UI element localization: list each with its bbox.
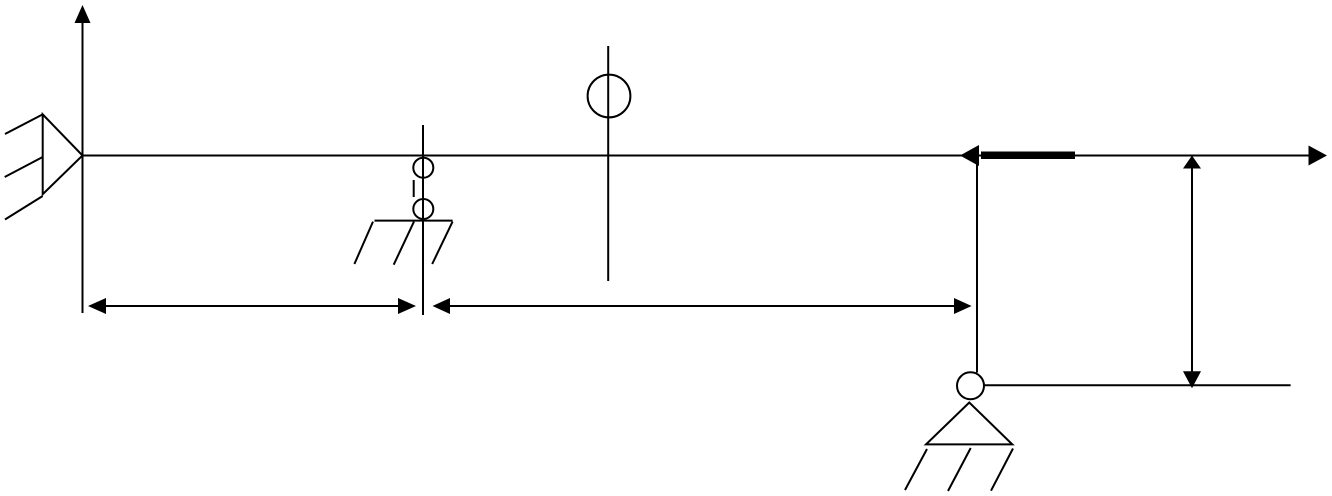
- left vertical axis line: [82, 20, 84, 313]
- up arrowhead on axis: [75, 5, 91, 23]
- middle support link bar: [413, 180, 415, 197]
- fixed support hatch 2: [5, 157, 43, 177]
- middle support lower roller circle: [413, 199, 433, 219]
- fixed support triangle (left wall): [43, 114, 83, 194]
- fixed support hatch 3: [5, 196, 43, 220]
- middle ground hatch 2: [394, 222, 414, 265]
- right ground hatch 1: [905, 449, 927, 490]
- right support vertical line: [976, 156, 978, 373]
- dimension line 2 (right span): [448, 305, 956, 307]
- right ground hatch 2: [948, 448, 971, 491]
- dim2 left arrowhead: [433, 298, 451, 314]
- right ground hatch 3: [991, 449, 1013, 491]
- double arrow top head: [1183, 156, 1201, 169]
- middle ground hatch 3: [432, 222, 452, 264]
- middle support upper roller circle: [413, 158, 433, 178]
- force arrow shaft (thick bar): [981, 152, 1075, 160]
- right support hinge circle: [957, 372, 984, 399]
- fixed support hatch 1: [5, 114, 43, 134]
- right support triangle: [926, 403, 1012, 445]
- dim1 left arrowhead: [88, 298, 106, 314]
- dimension line 1 (left span): [104, 305, 400, 307]
- middle ground hatch 1: [354, 222, 373, 264]
- dim1 right arrowhead: [398, 298, 416, 314]
- force arrow head (thick, pointing left): [960, 145, 979, 166]
- middle support ground line: [375, 220, 453, 222]
- vertical double-headed dimension arrow: [1191, 162, 1193, 378]
- beam (horizontal member): [83, 155, 1311, 157]
- right arrowhead on beam: [1309, 146, 1328, 166]
- bottom horizontal reference line: [985, 384, 1291, 386]
- load circle: [588, 75, 631, 118]
- dim2 right arrowhead: [954, 298, 972, 314]
- middle support vertical line: [422, 125, 424, 315]
- load application vertical line: [607, 46, 609, 281]
- double arrow bottom head: [1183, 371, 1201, 388]
